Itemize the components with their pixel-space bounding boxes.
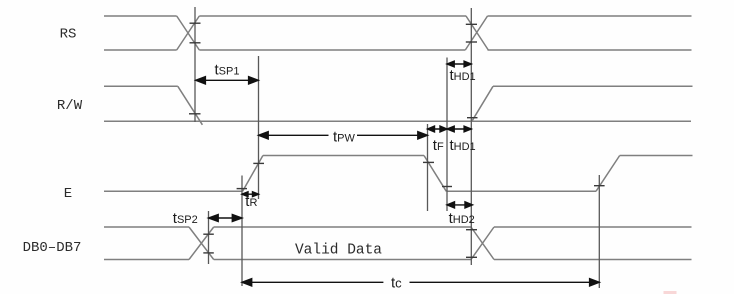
- R/W signal waveform: [104, 86, 693, 125]
- tick E fall foot: [442, 186, 452, 188]
- arrow tF: [429, 128, 447, 130]
- E rising edge 1: [243, 156, 263, 192]
- arrow tSP1: [197, 79, 257, 81]
- svg-text:Valid Data: Valid Data: [295, 243, 382, 259]
- wire DB top rail: [104, 226, 692, 228]
- tick R/W fall: [189, 113, 201, 115]
- wire E high rail: [263, 155, 424, 157]
- svg-text:tSP1: tSP1: [215, 62, 240, 79]
- tick E rise2: [594, 185, 605, 187]
- tick DB X2 lower: [466, 256, 477, 258]
- arrow tR: [243, 193, 258, 195]
- arrow tC: [243, 281, 598, 283]
- tick DB X1 lower: [203, 252, 214, 254]
- svg-text:RS: RS: [60, 26, 77, 42]
- watermark smudge: [664, 291, 677, 294]
- arrow tHD1 mid: [448, 128, 471, 130]
- node line F x=471.3: [470, 8, 472, 265]
- wire E low rail middle: [446, 190, 596, 192]
- arrow tSP2: [210, 217, 242, 219]
- node line H x=242: [241, 176, 243, 287]
- transition tick marks: [189, 23, 605, 257]
- R/W falling edge: [178, 86, 203, 125]
- arrow tPW: [260, 134, 427, 136]
- wire R/W low rail: [104, 120, 691, 122]
- svg-text:tPW: tPW: [333, 128, 356, 145]
- RS signal waveform: [104, 16, 692, 50]
- node line E x=447: [446, 58, 448, 212]
- E signal waveform: [104, 156, 693, 192]
- node line G x=599.3: [598, 175, 600, 288]
- DB crossover X left: [189, 227, 214, 260]
- measurement lines: [195, 7, 599, 288]
- svg-text:tF: tF: [433, 137, 444, 154]
- tick E rise1 upper: [253, 162, 264, 164]
- svg-text:tSP2: tSP2: [173, 210, 198, 227]
- tick RS X1 upper: [190, 22, 201, 24]
- svg-text:E: E: [64, 186, 72, 202]
- E rising edge 2: [596, 156, 620, 192]
- arrow tHD1 top: [448, 63, 471, 65]
- E falling edge: [424, 156, 446, 192]
- tick RS X1 lower: [190, 42, 201, 44]
- wire RS top rail: [104, 15, 692, 17]
- svg-text:tc: tc: [391, 275, 402, 292]
- tick RS X2 upper: [466, 23, 477, 25]
- wire RS bottom rail: [104, 49, 692, 51]
- timing labels: [173, 62, 476, 292]
- tick DB X2 upper: [466, 229, 477, 231]
- tick E rise1 foot: [237, 188, 247, 190]
- node line A x=195: [194, 7, 196, 122]
- node line D x=208.5: [208, 211, 210, 264]
- wire R/W high rail right: [493, 85, 693, 87]
- dimension arrows: [196, 61, 600, 286]
- node line B x=258.5: [258, 56, 260, 199]
- DB crossover X right: [471, 227, 494, 260]
- svg-text:DB0–DB7: DB0–DB7: [23, 240, 82, 256]
- R/W rising edge right: [472, 86, 493, 121]
- DB0-DB7 bus waveform: [104, 227, 692, 260]
- wire DB bottom rail: [104, 259, 692, 261]
- tick RS X2 lower: [466, 41, 477, 43]
- tick R/W rise foot: [467, 117, 478, 119]
- svg-text:R/W: R/W: [57, 98, 83, 114]
- tick E fall upper: [423, 161, 434, 163]
- node line C x=427.5: [427, 124, 429, 211]
- tick DB X1 upper: [203, 233, 214, 235]
- arrow tHD2: [448, 204, 472, 206]
- wire E high rail right: [620, 155, 693, 157]
- RS crossover X left: [177, 16, 200, 50]
- wire E low rail left: [104, 190, 243, 192]
- RS crossover X right: [465, 16, 488, 50]
- wire R/W high rail left: [104, 85, 178, 87]
